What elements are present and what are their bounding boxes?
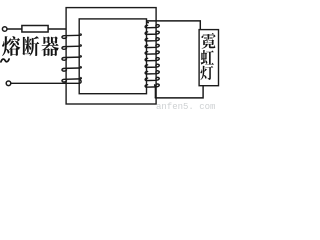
- secondary winding turn at y=85.6: [145, 84, 159, 87]
- secondary winding turn at y=59.2: [145, 58, 159, 61]
- fuse FU 熔断器: [22, 26, 48, 33]
- label 霓: [201, 33, 215, 49]
- secondary winding turn at y=79.0: [145, 77, 159, 80]
- wire neon lamp bottom to secondary bottom: [155, 86, 203, 98]
- label 熔断器 (fuse): [2, 36, 20, 56]
- terminal B (bottom-left AC input): [6, 81, 11, 86]
- secondary winding turn at y=52.6: [145, 51, 159, 54]
- primary winding turn at y=78.8: [62, 78, 81, 82]
- secondary winding turn at y=32.8: [145, 31, 159, 34]
- secondary winding turn at y=39.4: [145, 38, 159, 41]
- primary winding turn at y=35.2: [62, 34, 81, 38]
- secondary winding turn at y=65.8: [145, 64, 159, 67]
- AC tilde symbol: [1, 59, 9, 62]
- label 灯: [200, 66, 213, 80]
- secondary winding turn at y=26.2: [145, 25, 159, 28]
- wire secondary top to neon lamp: [147, 21, 200, 30]
- secondary bottom lead: [154, 85, 157, 98]
- wire terminal A to fuse: [7, 28, 22, 30]
- primary winding turn at y=67.9: [62, 67, 81, 71]
- secondary winding turn at y=72.4: [145, 71, 159, 74]
- wire terminal B to primary bottom lead: [11, 82, 80, 84]
- primary winding turn at y=57.0: [62, 56, 81, 60]
- primary bottom lead curl: [80, 80, 82, 83]
- terminal A (top-left AC input): [2, 27, 7, 32]
- transformer core inner rectangle: [79, 19, 146, 94]
- label 虹: [201, 50, 214, 65]
- neon lamp box 霓虹灯: [199, 30, 218, 86]
- svg-text:anfen5. com: anfen5. com: [156, 102, 215, 112]
- wire fuse to transformer primary: [48, 28, 66, 30]
- transformer core outer rectangle: [66, 8, 156, 104]
- secondary winding turn at y=46.0: [145, 44, 159, 47]
- primary winding turn at y=46.1: [62, 45, 81, 49]
